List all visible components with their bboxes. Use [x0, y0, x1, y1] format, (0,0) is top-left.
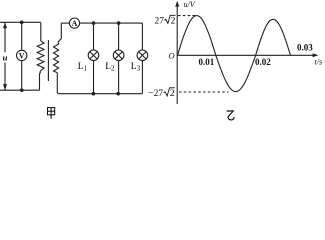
wire: primary bottom horizontal [0, 89, 40, 91]
x axis arrowhead [313, 53, 319, 57]
wire: voltmeter branch lower [21, 61, 23, 91]
node: top junction of voltmeter branch [20, 21, 24, 25]
wire: L2 branch upper [118, 23, 120, 50]
dashed level line +27sqrt2 [178, 15, 197, 17]
svg-text:t/s: t/s [315, 58, 323, 67]
node: junction L1 top [92, 21, 96, 25]
node: junction L2 bottom [116, 92, 120, 96]
svg-text:O: O [169, 51, 175, 61]
svg-text:L3: L3 [131, 62, 141, 72]
lamp L1 symbol [88, 50, 99, 61]
wire: L3 right side drop [141, 23, 143, 50]
label yi (乙) drawn glyph [227, 111, 235, 120]
transformer secondary lead bottom [57, 73, 142, 94]
wire: L3 branch lower [141, 61, 143, 94]
svg-text:27: 27 [155, 17, 165, 27]
y axis [176, 3, 178, 104]
svg-text:L1: L1 [78, 62, 88, 72]
transformer secondary lead top [58, 23, 61, 42]
wire: secondary top from lead to ammeter [61, 22, 69, 24]
label jia (甲) drawn glyph [48, 108, 55, 119]
lamp L3 symbol [137, 50, 148, 61]
wire: L1 branch lower [93, 61, 95, 94]
svg-text:u: u [3, 53, 8, 63]
wire: secondary top from ammeter to right corner [80, 22, 143, 24]
voltmeter V circle [17, 50, 27, 60]
y value label 27sqrt2 [155, 15, 176, 26]
svg-text:−27: −27 [148, 89, 163, 99]
source u down arrowhead [3, 84, 7, 90]
svg-text:V: V [19, 51, 25, 60]
wire: voltmeter branch upper [21, 22, 23, 50]
node: junction L2 top [117, 21, 121, 25]
ammeter A circle [69, 18, 79, 28]
transformer core line [47, 40, 49, 81]
transformer primary winding zigzag [37, 41, 44, 71]
source u up arrowhead [3, 23, 7, 29]
wire: L1 branch upper [93, 23, 95, 50]
sine curve u(t) [178, 16, 291, 92]
node: junction L1 bottom [92, 92, 96, 96]
wire: primary top horizontal [0, 21, 41, 23]
transformer secondary winding zigzag [54, 42, 59, 73]
svg-text:L2: L2 [105, 62, 115, 72]
lamp L2 symbol [113, 50, 124, 61]
x axis [177, 54, 314, 56]
y axis arrowhead [175, 1, 179, 7]
node: bottom junction of voltmeter branch [20, 88, 24, 92]
svg-text:A: A [72, 19, 78, 28]
svg-text:u/V: u/V [184, 0, 196, 9]
dashed level line -27sqrt2 [179, 91, 229, 93]
transformer primary lead top [40, 22, 42, 41]
svg-text:2: 2 [171, 17, 176, 27]
transformer primary lead bottom [39, 71, 42, 90]
y value label -27sqrt2 [148, 88, 175, 99]
svg-text:0.01: 0.01 [199, 57, 215, 67]
wire: L2 branch lower [118, 61, 120, 94]
source u arrow line lower [4, 62, 6, 90]
svg-text:0.02: 0.02 [255, 57, 271, 67]
svg-text:0.03: 0.03 [297, 43, 313, 53]
source u arrow line upper [4, 22, 6, 52]
svg-text:2: 2 [170, 89, 175, 99]
